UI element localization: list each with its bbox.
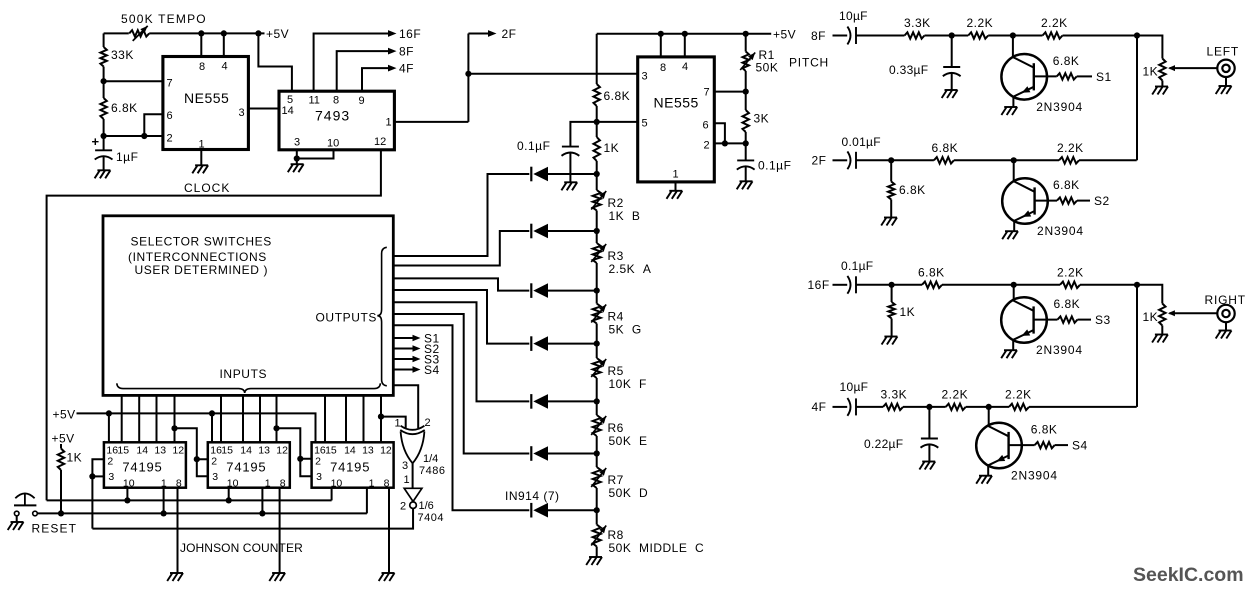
svg-text:2.2K: 2.2K xyxy=(942,387,969,401)
node clock chip1 xyxy=(124,497,130,503)
wire ch2 input dash xyxy=(833,159,848,161)
node2 ch3 xyxy=(1011,282,1017,288)
wire ch1 input dash xyxy=(833,35,848,37)
wire ch4 line xyxy=(856,406,883,408)
svg-text:2F: 2F xyxy=(502,27,517,41)
wire chip2 pin1 drop xyxy=(261,488,263,514)
wire input chip3 pin15 xyxy=(324,396,326,443)
wire +5V rail U3 xyxy=(597,33,772,35)
resistor 3.3K series ch1 xyxy=(905,32,925,38)
wire ch3 input dash xyxy=(833,284,848,286)
wire chip2 pin10 drop xyxy=(228,488,230,501)
wire node7 to 6.8K xyxy=(103,81,105,98)
resistor 2.2K collector ch1 xyxy=(1043,32,1063,38)
resistor 33K xyxy=(100,47,106,67)
wire ch1 collector xyxy=(1012,36,1014,58)
svg-text:0.1µF: 0.1µF xyxy=(517,139,550,153)
svg-text:2.2K: 2.2K xyxy=(967,16,994,30)
ground ladder bottom xyxy=(589,556,602,558)
arrow 4F xyxy=(388,65,397,72)
svg-text:1: 1 xyxy=(673,169,679,181)
wire clock rail bottom xyxy=(47,499,332,501)
svg-text:10µF: 10µF xyxy=(840,380,869,394)
wire +5V to 1K xyxy=(60,444,62,449)
svg-text:6: 6 xyxy=(703,120,709,132)
wire 33K to node7 xyxy=(103,67,105,82)
wire ladder above R3 xyxy=(596,231,598,243)
wire +5V johnson rail xyxy=(77,413,316,442)
node U3 pin4 rail xyxy=(682,31,688,37)
wire ch4 line to node2 xyxy=(966,406,989,408)
svg-text:6.8K: 6.8K xyxy=(1031,423,1058,437)
svg-text:1: 1 xyxy=(386,117,392,129)
arrow 8F xyxy=(388,48,397,55)
wire chip1 pin8 gnd xyxy=(177,488,179,573)
wire diode D3 to ladder xyxy=(548,290,597,292)
ground reset xyxy=(11,521,24,523)
svg-text:2N3904: 2N3904 xyxy=(1037,224,1084,238)
wire ladder above R5 xyxy=(596,344,598,358)
node 2F branch xyxy=(465,71,471,77)
svg-text:2.2K: 2.2K xyxy=(1057,141,1084,155)
svg-text:10: 10 xyxy=(327,138,339,150)
svg-text:NE555: NE555 xyxy=(654,95,699,111)
svg-text:16F: 16F xyxy=(399,27,421,41)
svg-text:0.33µF: 0.33µF xyxy=(889,63,928,77)
wire ch1 node2 to collres xyxy=(1013,35,1043,37)
wire ladder above R8 xyxy=(596,510,598,524)
potentiometer R1 50K xyxy=(743,52,749,72)
svg-text:3.3K: 3.3K xyxy=(904,16,931,30)
transistor Q 2N3904 ch4 xyxy=(976,423,1022,469)
capacitor ch1 input xyxy=(847,27,850,45)
wire ladder above R4 xyxy=(596,291,598,304)
svg-text:2: 2 xyxy=(400,501,406,513)
node pin7 R1 xyxy=(743,89,749,95)
arrow 2F xyxy=(488,30,497,37)
wire rail to R1 xyxy=(745,34,747,52)
svg-text:12: 12 xyxy=(380,445,392,457)
capacitor 0.1uF pin5 xyxy=(562,146,579,148)
pushbutton contact right xyxy=(33,511,38,516)
wiper arrow RIGHT xyxy=(1169,312,1175,314)
wire ch3 collector xyxy=(1013,285,1015,301)
svg-text:S1: S1 xyxy=(1096,70,1112,84)
wire 6.8K to pin5 node xyxy=(596,106,598,122)
wire ch1 base xyxy=(1034,75,1057,77)
svg-text:3.3K: 3.3K xyxy=(881,387,908,401)
wire node to gnd xyxy=(296,159,298,165)
svg-text:15: 15 xyxy=(117,445,129,457)
wire diode D7 to ladder xyxy=(548,509,597,511)
wire ch3 line to node2 xyxy=(942,284,1014,286)
wire U3 pin4 up xyxy=(684,34,686,57)
timer U3 NE555 box xyxy=(638,57,715,182)
capacitor 0.1uF pin2 xyxy=(737,159,754,161)
wire pin6 bracket xyxy=(144,114,163,136)
svg-text:2.2K: 2.2K xyxy=(1057,265,1084,279)
ground chip2 xyxy=(272,572,285,574)
node ladder row 4 xyxy=(594,341,600,347)
svg-text:6.8K: 6.8K xyxy=(111,101,138,115)
svg-text:S3: S3 xyxy=(1095,313,1111,327)
svg-text:2: 2 xyxy=(107,456,113,468)
brace inputs xyxy=(117,383,381,393)
svg-text:13: 13 xyxy=(258,445,270,457)
svg-text:10: 10 xyxy=(123,478,135,490)
potentiometer R5 xyxy=(593,358,601,378)
node U3 pin8 rail xyxy=(658,31,664,37)
wire ch3 base out xyxy=(1078,319,1092,321)
wire ch1 shunt gnd xyxy=(951,73,953,90)
wire selector output 7 xyxy=(393,325,529,510)
svg-text:NE555: NE555 xyxy=(184,90,229,106)
node pin2 xyxy=(101,133,107,139)
wire cap to gnd xyxy=(103,156,105,170)
svg-text:+5V: +5V xyxy=(53,408,76,422)
svg-text:50K D: 50K D xyxy=(609,486,649,500)
wire 7493 vcc from +5V xyxy=(258,33,292,91)
node chip1 QD xyxy=(171,425,177,431)
node RIGHT bus xyxy=(1134,282,1140,288)
wire chain chip1 to chip2 xyxy=(175,428,208,459)
wire RIGHT bus down xyxy=(1136,285,1138,407)
arrow S4 xyxy=(413,366,421,372)
wire ch2 emitter xyxy=(1013,221,1015,231)
wire ch3 emitter xyxy=(1012,340,1014,350)
ground emitter ch4 xyxy=(979,475,992,477)
svg-text:R6: R6 xyxy=(608,421,624,435)
ground under 1uF xyxy=(97,169,110,171)
wire ch4 input dash xyxy=(833,406,848,408)
svg-text:2F: 2F xyxy=(812,154,827,168)
wire ladder above R6 xyxy=(596,401,598,415)
wire pin11 to 16F xyxy=(314,34,390,92)
node chip3 JK tie xyxy=(297,456,303,462)
resistor 1K shunt ch3 xyxy=(888,302,894,319)
wire ch3 shunt gnd xyxy=(891,319,893,337)
wire ch2 line to node2 xyxy=(954,159,1014,161)
wire ladder below R7 xyxy=(596,488,598,510)
svg-text:12: 12 xyxy=(172,445,184,457)
svg-text:0.01µF: 0.01µF xyxy=(842,135,881,149)
wire xor input2 xyxy=(393,385,418,428)
svg-text:3: 3 xyxy=(108,471,114,483)
svg-text:1: 1 xyxy=(265,478,271,490)
wire ch4 shunt drop xyxy=(928,407,930,439)
svg-text:6.8K: 6.8K xyxy=(1053,54,1080,68)
node chip1 JK tie xyxy=(89,473,95,479)
wire ladder above R7 xyxy=(596,454,598,468)
potentiometer R6 xyxy=(593,415,601,436)
svg-text:1: 1 xyxy=(199,139,205,151)
svg-text:14: 14 xyxy=(344,445,356,457)
diode D4 IN914 xyxy=(530,336,532,351)
potentiometer R7 xyxy=(593,467,601,488)
wire pin2 to cap xyxy=(745,143,747,160)
inverter U5 7404 xyxy=(404,488,422,501)
wire chip3 pin10 drop xyxy=(331,488,333,501)
svg-text:8F: 8F xyxy=(811,29,826,43)
svg-text:7: 7 xyxy=(167,78,173,90)
resistor 6.8K U3 xyxy=(594,84,600,106)
wire ch4 collres out xyxy=(1029,406,1137,408)
node ladder row 6 xyxy=(594,450,600,456)
svg-text:4: 4 xyxy=(222,61,228,73)
wire LEFT bus down xyxy=(1136,36,1138,161)
node pin5 xyxy=(594,119,600,125)
svg-text:7493: 7493 xyxy=(315,108,350,124)
shift register IC1 74195 box xyxy=(104,442,186,487)
node reset chip1 pin1 xyxy=(161,510,167,516)
wire 3K to pin2 node xyxy=(745,132,747,143)
svg-text:S2: S2 xyxy=(1094,194,1110,208)
wire cap to gnd pin2 xyxy=(745,166,747,181)
node1 ch2 xyxy=(888,157,894,163)
wire R1 to pin7 xyxy=(745,71,747,92)
wire selector output 3 xyxy=(393,278,529,290)
pushbutton reset stem xyxy=(24,493,26,505)
wire RIGHT jack gnd xyxy=(1225,322,1227,330)
wire output S2 xyxy=(393,348,414,350)
svg-text:1K B: 1K B xyxy=(609,209,641,223)
node ladder row 3 xyxy=(594,288,600,294)
diode D5 IN914 xyxy=(530,394,532,409)
wire ladder below R3 xyxy=(596,263,598,291)
svg-text:SeekIC.com: SeekIC.com xyxy=(1133,564,1244,586)
svg-text:3: 3 xyxy=(239,107,245,119)
node2 ch2 xyxy=(1011,157,1017,163)
wire xor input1 xyxy=(381,417,406,429)
svg-text:11: 11 xyxy=(309,95,320,107)
node2 ch4 xyxy=(986,404,992,410)
resistor 1K ladder top xyxy=(594,137,600,161)
svg-text:15: 15 xyxy=(325,445,337,457)
node ladder row 1 xyxy=(594,171,600,177)
wire ladder below R4 xyxy=(596,324,598,344)
wire input chip3 pin13 xyxy=(363,396,365,443)
svg-text:500K TEMPO: 500K TEMPO xyxy=(121,12,207,26)
wire cap to gnd U3 xyxy=(569,153,571,183)
svg-text:14: 14 xyxy=(136,445,148,457)
wire ch3 line xyxy=(856,284,922,286)
svg-text:LEFT: LEFT xyxy=(1207,45,1240,59)
svg-text:74195: 74195 xyxy=(226,460,266,475)
svg-text:14: 14 xyxy=(282,105,294,117)
wire input chip2 pin14 xyxy=(242,396,244,443)
svg-text:5: 5 xyxy=(642,118,648,130)
svg-text:6: 6 xyxy=(167,110,173,122)
wire ch4 base out xyxy=(1055,444,1068,446)
resistor 6.8K series ch3 xyxy=(922,282,942,288)
wire LEFT wiper to jack xyxy=(1175,67,1217,69)
counter U2 7493 box xyxy=(279,91,394,150)
node ladder row 5 xyxy=(594,398,600,404)
shift register IC2 74195 box xyxy=(208,442,290,487)
svg-text:10µF: 10µF xyxy=(839,9,868,23)
wire pin7 xyxy=(104,80,163,82)
wire +5V top rail left xyxy=(104,32,129,34)
svg-text:3: 3 xyxy=(212,471,218,483)
svg-text:USER DETERMINED ): USER DETERMINED ) xyxy=(135,263,269,277)
node chip2 QD xyxy=(273,425,279,431)
svg-text:7404: 7404 xyxy=(418,512,444,524)
resistor 6.8K series ch2 xyxy=(934,157,954,163)
svg-text:R2: R2 xyxy=(608,196,624,210)
wire 6.8K to node2 xyxy=(103,119,105,136)
wire ch2 shunt gnd xyxy=(890,200,892,218)
wire chip1 pin1 drop xyxy=(163,488,165,514)
pushbutton reset arc xyxy=(15,493,34,498)
wire 1K to row1 node xyxy=(596,161,598,174)
svg-text:8: 8 xyxy=(660,62,666,74)
diode D1 IN914 xyxy=(530,167,532,182)
svg-text:16F: 16F xyxy=(808,278,830,292)
wire ch1 base out xyxy=(1077,75,1092,77)
node LEFT bus xyxy=(1134,32,1140,38)
svg-text:INPUTS: INPUTS xyxy=(220,367,268,381)
wire pin4 up xyxy=(223,33,225,56)
svg-text:1/6: 1/6 xyxy=(419,500,434,512)
node rail-pin4 xyxy=(221,30,227,36)
ground 1K LEFT xyxy=(1155,86,1168,88)
wire ch2 base xyxy=(1035,200,1057,202)
svg-text:6.8K: 6.8K xyxy=(1053,178,1080,192)
wire clock: pin12 down-left rail xyxy=(47,150,381,501)
wire pin5 to cap branch xyxy=(570,122,596,147)
node rail-pin8 xyxy=(198,30,204,36)
resistor 2.2K collector ch4 xyxy=(1009,404,1029,410)
svg-text:2N3904: 2N3904 xyxy=(1036,100,1083,114)
wire ch2 collector xyxy=(1013,160,1015,181)
wire R8 to ground xyxy=(596,547,598,558)
svg-text:15: 15 xyxy=(221,445,233,457)
resistor 1K pullup xyxy=(58,449,64,471)
svg-text:1/4: 1/4 xyxy=(423,453,438,465)
wire output S1 xyxy=(393,337,414,339)
svg-text:1: 1 xyxy=(369,478,375,490)
resistor 2.2K series ch4 xyxy=(946,404,966,410)
svg-text:+5V: +5V xyxy=(52,432,75,446)
wire ch2 base out xyxy=(1077,200,1090,202)
svg-text:74195: 74195 xyxy=(122,460,162,475)
pushbutton contact left xyxy=(14,511,19,516)
svg-text:RESET: RESET xyxy=(32,522,78,536)
wire output S3 xyxy=(393,358,414,360)
wire U3 pin1 down xyxy=(675,182,677,191)
brace outputs xyxy=(377,247,387,385)
potentiometer 1K LEFT xyxy=(1159,59,1165,81)
wire diode D2 to ladder xyxy=(548,230,597,232)
ground chip3 xyxy=(382,572,395,574)
wire ladder below R6 xyxy=(596,436,598,454)
wire ch1 line xyxy=(925,35,969,37)
wire U3 pin2 xyxy=(714,142,745,144)
diode D6 IN914 xyxy=(530,446,532,461)
wire pin2 xyxy=(104,135,163,137)
op-amp timer U1 NE555 box xyxy=(163,57,249,150)
svg-text:8: 8 xyxy=(333,95,339,107)
wire contact to gnd xyxy=(16,516,18,522)
resistor 6.8K xyxy=(100,98,106,119)
wire ladder below R5 xyxy=(596,378,598,401)
ground jack LEFT xyxy=(1219,85,1232,87)
wire ladder below R2 xyxy=(596,211,598,232)
svg-text:R3: R3 xyxy=(608,249,624,263)
ground 0.1uF pin5 xyxy=(564,181,577,183)
wire chip3 pin12 to box xyxy=(380,396,382,443)
selector switches box xyxy=(103,216,393,396)
wire feedback rail xyxy=(92,509,413,529)
resistor 6.8K shunt ch2 xyxy=(888,182,894,200)
resistor 3.3K series ch4 xyxy=(883,404,903,410)
ground 0.1uF pin2 xyxy=(740,180,753,182)
ground U3 pin1 xyxy=(669,190,682,192)
diode D2 IN914 xyxy=(530,224,532,239)
capacitor 1uF xyxy=(95,149,112,151)
node 1K reset xyxy=(58,510,64,516)
node xor input1 xyxy=(378,414,384,420)
resistor 2.2K series ch1 xyxy=(968,32,988,38)
svg-text:2: 2 xyxy=(211,456,217,468)
svg-text:1µF: 1µF xyxy=(116,150,138,164)
svg-text:0.1µF: 0.1µF xyxy=(758,159,791,173)
resistor 3K xyxy=(743,110,749,132)
svg-text:6.8K: 6.8K xyxy=(899,183,926,197)
svg-text:JOHNSON COUNTER: JOHNSON COUNTER xyxy=(180,541,303,555)
wire pin1 down xyxy=(200,150,202,166)
node pin6-pin2 xyxy=(722,140,728,146)
wire node2 to cap xyxy=(103,136,105,150)
svg-text:6.8K: 6.8K xyxy=(932,141,959,155)
svg-text:OUTPUTS: OUTPUTS xyxy=(316,311,378,325)
svg-text:(INTERCONNECTIONS: (INTERCONNECTIONS xyxy=(128,250,267,264)
wiper arrow LEFT xyxy=(1170,67,1176,69)
wire input chip2 pin13 xyxy=(259,396,261,443)
wire selector output 1 xyxy=(393,174,529,256)
node R1 rail xyxy=(743,31,749,37)
ground 7493 xyxy=(291,163,304,165)
svg-text:S4: S4 xyxy=(1072,439,1088,453)
svg-text:+: + xyxy=(92,134,100,149)
wire ch4 base xyxy=(1009,444,1035,446)
wire selector output 5 xyxy=(393,302,529,401)
svg-text:3: 3 xyxy=(316,471,322,483)
wire xor out to inverter xyxy=(412,463,414,488)
wire ch3 collres out xyxy=(1080,284,1137,286)
svg-text:2: 2 xyxy=(425,417,431,429)
ground jack RIGHT xyxy=(1219,330,1232,332)
svg-text:2: 2 xyxy=(315,456,321,468)
wire diode D1 to ladder xyxy=(548,173,597,175)
resistor 6.8K base ch3 xyxy=(1058,316,1078,322)
svg-text:4F: 4F xyxy=(399,62,414,76)
svg-text:2N3904: 2N3904 xyxy=(1011,469,1058,483)
wire selector output 4 xyxy=(393,290,529,344)
svg-text:7486: 7486 xyxy=(419,465,445,477)
potentiometer R2 xyxy=(593,190,601,211)
svg-text:13: 13 xyxy=(362,445,374,457)
svg-text:1K: 1K xyxy=(900,305,916,319)
wire ch2 collres out xyxy=(1079,159,1137,161)
wire input chip1 pin13 xyxy=(156,396,158,443)
node1 ch3 xyxy=(889,282,895,288)
wire chip1 pin10 drop xyxy=(126,488,128,501)
svg-text:6.8K: 6.8K xyxy=(918,265,945,279)
wire chip3 pin1 drop xyxy=(366,488,368,514)
svg-text:R7: R7 xyxy=(608,473,624,487)
svg-text:4F: 4F xyxy=(812,400,827,414)
